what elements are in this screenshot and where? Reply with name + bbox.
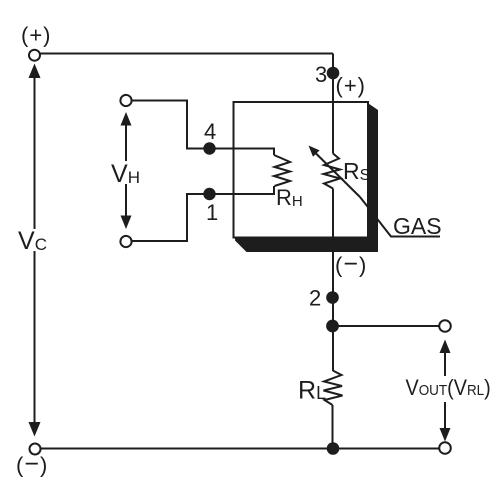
svg-text:(+): (+) (336, 73, 367, 98)
VOUT arrow down head (440, 428, 451, 442)
junction dot bottom rail (327, 442, 340, 455)
VH arrow up head (121, 112, 132, 126)
junction dot VOUT branch (326, 320, 339, 333)
junction dot pin 2 (326, 291, 339, 304)
wire top rail from (+) terminal to node 3 column (41, 53, 334, 55)
wire VH bottom: RH bottom out of sensor via pin 1 to terminal (132, 186, 275, 241)
VOUT rail upper segment (444, 348, 446, 376)
wire RS bottom through box shadow down to RL top (332, 189, 334, 372)
VOUT arrow up head (440, 340, 451, 354)
terminal (+) top left (29, 50, 40, 61)
terminal VOUT top (439, 320, 451, 332)
svg-text:1: 1 (206, 200, 218, 225)
wire RL bottom to bottom rail (332, 405, 334, 449)
svg-text:(+): (+) (21, 23, 52, 48)
wire node-3 column: top rail corner down through sensor to RS top (332, 54, 334, 154)
resistor RS (sensing) zigzag (324, 154, 341, 189)
junction dot pin 1 (203, 188, 215, 200)
wire VH top: terminal to pin 4 into sensor (132, 101, 275, 156)
terminal (-) bottom left (30, 444, 41, 455)
sensor body shadow (thick right and bottom edge) (235, 103, 378, 253)
resistor RH (heater) zigzag (274, 155, 290, 186)
label VOUT(VRL) (406, 376, 491, 400)
wire bottom rail (41, 448, 439, 450)
VOUT rail lower segment (444, 402, 446, 434)
VC rail lower segment (34, 251, 36, 425)
VC rail upper segment (34, 72, 36, 229)
VC arrow up head (29, 64, 41, 79)
terminal VH top (120, 95, 131, 106)
wire from junction below pin 2 to VOUT upper terminal (333, 325, 440, 327)
junction dot pin 3 (327, 67, 340, 80)
variable-resistor arrowhead (309, 146, 320, 157)
svg-text:2: 2 (309, 286, 321, 311)
VH arrow down head (121, 216, 132, 230)
VC arrow down head (29, 422, 41, 437)
terminal VOUT bottom (439, 442, 451, 454)
VH rail lower segment (125, 184, 127, 222)
svg-text:4: 4 (204, 119, 216, 144)
resistor RL zigzag (324, 371, 343, 405)
GAS leader line (360, 197, 440, 237)
svg-text:GAS: GAS (393, 213, 442, 239)
svg-text:(−): (−) (16, 450, 48, 478)
svg-text:3: 3 (315, 62, 327, 87)
svg-text:(−): (−) (335, 250, 367, 278)
sensor body outline (234, 102, 369, 238)
junction dot pin 4 (203, 142, 215, 154)
terminal VH bottom (120, 236, 131, 247)
VH rail upper segment (125, 120, 127, 161)
variable-resistor arrow shaft through RS (315, 153, 360, 198)
